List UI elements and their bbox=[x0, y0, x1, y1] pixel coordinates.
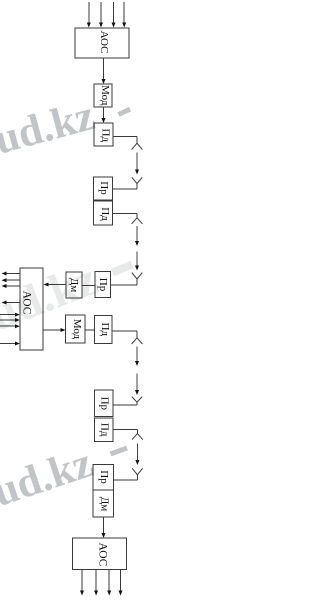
svg-text:Пр: Пр bbox=[98, 181, 110, 195]
radio path arrow hop 4 bbox=[135, 444, 139, 466]
inserted channel arrows (in left) bbox=[0, 313, 20, 346]
block Пд (mid transmitter) bbox=[95, 315, 113, 343]
wire antenna 2 to Пр mid bbox=[111, 284, 137, 286]
antenna RX 4 bbox=[132, 468, 142, 480]
antenna TX 1 bbox=[132, 137, 143, 150]
svg-text:Пр: Пр bbox=[99, 397, 111, 411]
svg-text:Мод: Мод bbox=[99, 85, 111, 106]
block Мод (mid modulator) bbox=[66, 315, 86, 343]
block Пр (mid receiver) bbox=[95, 272, 111, 298]
block АОС U2 (mid drop-insert multiplexer) bbox=[20, 268, 43, 350]
svg-text:Пр: Пр bbox=[98, 470, 110, 484]
radio path arrows hop 2 bbox=[135, 226, 139, 271]
block Пр (repeater 2 receiver) bbox=[94, 390, 113, 417]
block АОС U1 (top multiplexer) bbox=[75, 28, 129, 58]
wire Пр mid to Дм mid bbox=[82, 284, 95, 286]
block Пд (repeater 1 transmitter) bbox=[94, 201, 113, 225]
svg-text:Пд: Пд bbox=[99, 423, 111, 437]
wire АОС to Мод bbox=[102, 58, 106, 84]
svg-text:Пд: Пд bbox=[99, 207, 111, 221]
wire Пд mid to antenna 3 bbox=[112, 330, 137, 332]
radio path arrow hop 1 bbox=[135, 153, 139, 175]
wire Дм final to АОС final bbox=[102, 517, 106, 538]
dropped channel arrows (out left) bbox=[2, 272, 21, 305]
watermark overlay bbox=[0, 92, 132, 516]
antenna RX 2 bbox=[132, 273, 142, 285]
block АОС U3 (final demultiplexer) bbox=[73, 538, 127, 570]
block Дм (final demodulator) bbox=[93, 490, 114, 517]
svg-text:Пд: Пд bbox=[99, 323, 111, 337]
wire Мод to Пд bbox=[102, 107, 106, 123]
antenna RX 1 bbox=[132, 177, 142, 189]
wire Дм mid to АОС mid bbox=[44, 283, 67, 287]
radio path arrows hop 3 bbox=[135, 347, 139, 396]
block Пд (repeater 2 transmitter) bbox=[94, 418, 113, 442]
antenna TX 4 bbox=[132, 430, 143, 440]
svg-text:Дм: Дм bbox=[98, 497, 110, 512]
antenna TX 3 bbox=[132, 331, 143, 344]
wire Пд repeater 2 to antenna 4 bbox=[113, 429, 137, 431]
block Пр (repeater 1 receiver) bbox=[94, 177, 113, 200]
wire Пд to antenna 1 bbox=[113, 136, 137, 138]
wire АОС mid to Мод mid bbox=[43, 328, 66, 332]
svg-text:Мод: Мод bbox=[71, 319, 83, 340]
svg-text:АОС: АОС bbox=[97, 543, 109, 567]
wire Мод mid to Пд mid bbox=[85, 329, 95, 331]
wire antenna 1 to Пр repeater 1 bbox=[113, 188, 137, 190]
svg-text:АОС: АОС bbox=[98, 31, 110, 54]
wire antenna 4 to Пр final bbox=[114, 479, 138, 481]
output lines (4 channels) bbox=[80, 570, 123, 596]
svg-text:Пд: Пд bbox=[99, 129, 111, 143]
antenna RX 3 bbox=[132, 397, 142, 405]
block Дм (mid demodulator) bbox=[66, 272, 82, 298]
wire antenna 3 to Пр repeater 2 bbox=[113, 404, 137, 406]
block Пд (transmitter 1) bbox=[94, 123, 113, 146]
block Мод (modulator 1) bbox=[94, 84, 112, 107]
block Пр (final receiver) bbox=[93, 464, 114, 490]
antenna TX 2 bbox=[132, 214, 143, 224]
wire Пд repeater 1 to antenna 2 bbox=[113, 213, 137, 215]
input lines (4 channels) bbox=[87, 2, 126, 28]
